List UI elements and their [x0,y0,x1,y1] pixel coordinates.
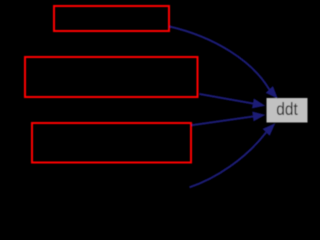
svg-text:ddt: ddt [276,99,298,119]
